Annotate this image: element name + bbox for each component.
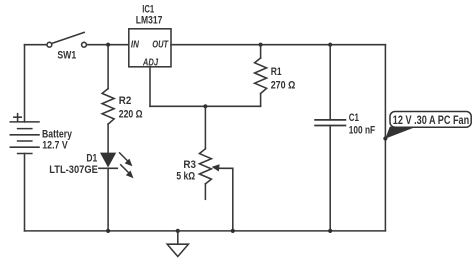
- node junction C1 bottom: [328, 229, 332, 233]
- svg-text:C1: C1: [349, 112, 359, 124]
- op-amp / regulator IC1 LM317 box: [129, 29, 171, 67]
- resistor R2: [102, 89, 114, 125]
- svg-text:12 V .30 A PC Fan: 12 V .30 A PC Fan: [393, 113, 469, 127]
- ground: [167, 231, 188, 257]
- svg-text:LM317: LM317: [136, 15, 163, 27]
- battery 12.7 V: [10, 114, 39, 154]
- wire right rail: [384, 45, 386, 231]
- wire battery bottom to bottom rail: [24, 154, 26, 231]
- svg-text:100 nF: 100 nF: [349, 125, 376, 137]
- wire R3 top: [204, 106, 206, 149]
- svg-text:220 Ω: 220 Ω: [119, 109, 143, 121]
- svg-text:R3: R3: [183, 159, 196, 171]
- node junction R2 branch bottom: [106, 229, 110, 233]
- node junction ADJ / R3: [203, 104, 207, 108]
- svg-text:LTL-307GE: LTL-307GE: [49, 164, 98, 176]
- node junction top of C1: [328, 43, 332, 47]
- LED D1: [99, 153, 134, 179]
- wire C1 top: [329, 45, 331, 120]
- svg-text:OUT: OUT: [152, 40, 168, 51]
- wire left rail to battery top: [24, 45, 26, 122]
- node junction top of R1: [259, 43, 263, 47]
- svg-text:D1: D1: [86, 153, 97, 165]
- svg-text:IC1: IC1: [142, 3, 154, 15]
- node junction top of R2 branch: [106, 43, 110, 47]
- svg-text:5 kΩ: 5 kΩ: [176, 171, 195, 183]
- svg-text:R2: R2: [119, 95, 132, 107]
- wire ADJ node horizontal to R1 bottom: [150, 105, 261, 107]
- node junction ground: [176, 229, 180, 233]
- wire C1 bottom: [329, 126, 331, 231]
- svg-text:R1: R1: [271, 66, 282, 78]
- svg-text:270 Ω: 270 Ω: [271, 80, 296, 92]
- wire OUT rail to top-right corner: [171, 44, 385, 46]
- wire R2 to D1: [107, 124, 109, 152]
- wire top rail down to R2: [107, 45, 109, 89]
- wire R3 wiper down to bottom rail: [232, 168, 234, 231]
- switch SW1: [47, 32, 86, 47]
- svg-text:SW1: SW1: [57, 50, 76, 62]
- wire switch to IC1 IN: [86, 44, 128, 46]
- resistor R1: [255, 58, 267, 94]
- wire ADJ pin down: [149, 67, 151, 107]
- capacitor C1: [315, 120, 345, 126]
- wire R1 top: [260, 45, 262, 58]
- wire D1 to bottom rail: [107, 168, 109, 231]
- svg-text:12.7 V: 12.7 V: [42, 139, 67, 151]
- callout box 12 V .30 A PC Fan: [390, 112, 471, 128]
- node junction callout on right rail: [383, 136, 387, 140]
- callout tail: [385, 127, 413, 139]
- potentiometer R3: [199, 149, 232, 200]
- node junction wiper bottom: [231, 229, 235, 233]
- svg-text:IN: IN: [131, 40, 140, 51]
- wire bottom rail: [25, 230, 386, 232]
- wire top rail: battery to switch: [25, 44, 48, 46]
- wire R1 bottom: [260, 94, 262, 107]
